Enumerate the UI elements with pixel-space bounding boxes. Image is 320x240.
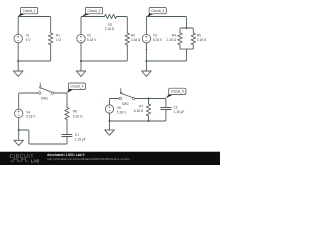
svg-text:1.18 µF: 1.18 µF bbox=[174, 110, 185, 114]
svg-text:R4: R4 bbox=[172, 33, 176, 37]
svg-text:C2: C2 bbox=[174, 106, 178, 110]
svg-text:V3: V3 bbox=[153, 33, 157, 37]
svg-text:3.18 Ω: 3.18 Ω bbox=[197, 38, 207, 42]
svg-text:C1: C1 bbox=[75, 133, 79, 137]
svg-text:5.18 V: 5.18 V bbox=[87, 38, 97, 42]
svg-text:1.18 µF: 1.18 µF bbox=[75, 137, 86, 141]
svg-text:5.18 V: 5.18 V bbox=[26, 115, 36, 119]
svg-text:2.18 Ω: 2.18 Ω bbox=[105, 27, 115, 31]
svg-text:R1: R1 bbox=[56, 33, 60, 37]
svg-text:5.18 V: 5.18 V bbox=[153, 38, 163, 42]
svg-text:1 Ω: 1 Ω bbox=[56, 38, 62, 42]
svg-text:R3: R3 bbox=[131, 33, 135, 37]
svg-text:6.18 Ω: 6.18 Ω bbox=[134, 109, 144, 113]
svg-text:5.18 V: 5.18 V bbox=[117, 110, 127, 114]
svg-text:V1: V1 bbox=[26, 33, 30, 37]
svg-text:Circuit_4: Circuit_4 bbox=[70, 85, 83, 89]
svg-text:Circuit_3: Circuit_3 bbox=[151, 9, 164, 13]
svg-text:R5: R5 bbox=[197, 33, 201, 37]
svg-text:SW2: SW2 bbox=[122, 102, 129, 106]
svg-text:Circuit_5: Circuit_5 bbox=[171, 90, 184, 94]
svg-text:Circuit_1: Circuit_1 bbox=[23, 9, 36, 13]
svg-text:SW1: SW1 bbox=[41, 97, 48, 101]
svg-text:R6: R6 bbox=[73, 110, 77, 114]
svg-text:6.18 Ω: 6.18 Ω bbox=[73, 114, 83, 118]
svg-text:2.18 Ω: 2.18 Ω bbox=[167, 38, 177, 42]
svg-text:http://circuitlab.com/circuit/: http://circuitlab.com/circuit/6dab2e28b8… bbox=[47, 157, 130, 161]
svg-text:V2: V2 bbox=[87, 33, 91, 37]
svg-text:3.18 Ω: 3.18 Ω bbox=[131, 38, 141, 42]
svg-text:Circuit_2: Circuit_2 bbox=[87, 9, 100, 13]
svg-text:R7: R7 bbox=[139, 105, 143, 109]
svg-text:LAB: LAB bbox=[31, 158, 39, 163]
svg-text:V5: V5 bbox=[117, 106, 121, 110]
